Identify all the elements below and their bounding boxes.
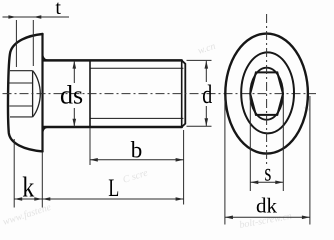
svg-text:dk: dk — [256, 194, 278, 218]
svg-text:t: t — [55, 0, 61, 19]
svg-text:L: L — [108, 175, 119, 202]
svg-text:s: s — [264, 160, 271, 187]
svg-text:d: d — [202, 80, 212, 109]
svg-text:b: b — [131, 137, 143, 162]
svg-text:ds: ds — [60, 80, 83, 109]
svg-text:k: k — [22, 171, 34, 203]
